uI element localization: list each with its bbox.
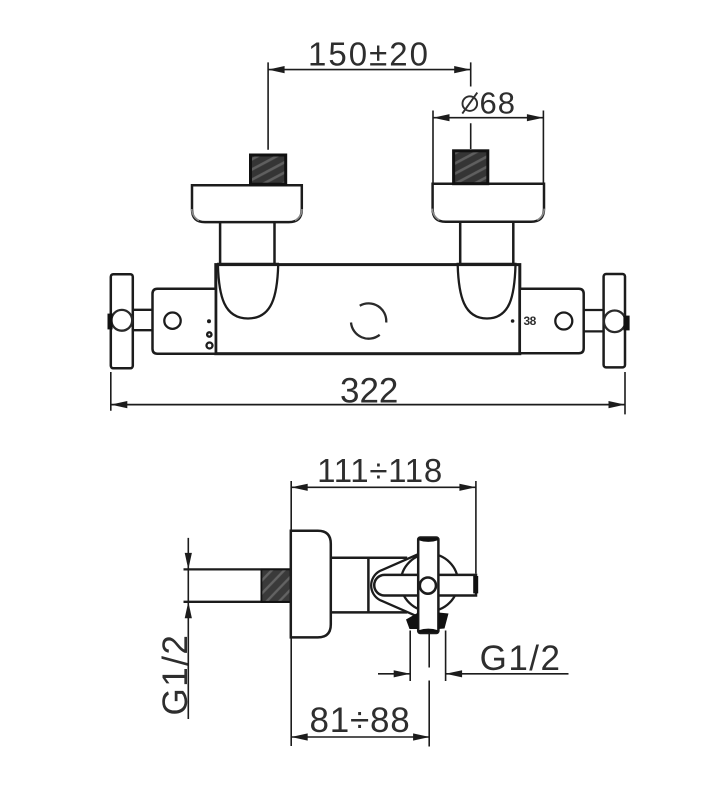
handle horizontal arm <box>374 575 476 596</box>
left cap dot 2 <box>207 332 211 336</box>
left riser pipe <box>220 222 274 264</box>
arrow Ø68 left <box>433 114 450 121</box>
wall plane extension below escutcheon <box>290 638 292 746</box>
central selector circle <box>351 303 386 338</box>
mixer body <box>216 265 520 354</box>
side escutcheon <box>291 531 331 638</box>
arrow 111 left <box>291 484 308 491</box>
svg-text:150±20: 150±20 <box>308 36 430 73</box>
left inlet dome <box>218 265 278 319</box>
right knob arm stub <box>623 316 629 331</box>
left cap circle <box>164 313 180 329</box>
svg-text:322: 322 <box>340 372 398 411</box>
handle vertical arm <box>418 538 438 634</box>
svg-text:G1/2: G1/2 <box>480 639 562 678</box>
right knob hub <box>604 311 626 333</box>
temperature dot <box>511 319 515 323</box>
svg-text:68: 68 <box>480 86 516 121</box>
right wall anchor <box>454 151 488 184</box>
arrow 81 right <box>413 733 430 740</box>
dim 150±20 extension lines <box>268 62 471 149</box>
right cap circle <box>555 313 572 330</box>
left wall anchor <box>251 155 286 184</box>
horizontal arm end cap <box>473 576 478 593</box>
right escutcheon <box>433 184 544 222</box>
dim Ø68 extension lines <box>433 111 543 184</box>
right pipe/body junction <box>457 263 517 266</box>
left pipe/body junction <box>217 263 279 266</box>
left knob arm stub <box>108 314 113 330</box>
dim Ø68 line <box>433 117 543 119</box>
handle skirt circle <box>401 554 458 611</box>
arrow G1/2 up <box>185 602 192 619</box>
pipe hatch block <box>261 569 290 601</box>
arrow outlet left <box>446 670 463 677</box>
arrow 322 right <box>609 401 626 408</box>
arrow G1/2 down <box>185 553 192 570</box>
outlet center line <box>428 634 430 747</box>
right knob connector <box>584 310 604 331</box>
right end cap <box>520 289 584 353</box>
arrow 322 left <box>111 401 128 408</box>
dim 81÷88 line <box>291 736 429 738</box>
left knob connector <box>133 310 153 330</box>
vertical arm top cap <box>419 538 438 542</box>
arrow 150 left <box>268 66 285 73</box>
svg-text:81÷88: 81÷88 <box>309 701 410 740</box>
left escutcheon corner flicks <box>192 209 302 221</box>
right inlet dome <box>458 265 516 319</box>
label Ø68 diameter symbol <box>462 93 477 114</box>
dim 322 line <box>111 404 625 406</box>
arrow 111 right <box>459 484 476 491</box>
right escutcheon corner flicks <box>432 209 544 221</box>
left escutcheon <box>192 185 302 222</box>
skirt black flank left <box>406 613 418 630</box>
arrow outlet right <box>394 670 411 677</box>
wall supply pipe <box>184 569 291 601</box>
left end cap <box>153 289 216 354</box>
dim 111÷118 line <box>291 486 476 488</box>
left knob bar <box>111 274 133 368</box>
arrow 150 right <box>454 66 471 73</box>
left cap dot 3 <box>207 343 213 349</box>
G1/2 right dim line <box>378 673 569 675</box>
vertical arm bottom cap <box>419 629 438 633</box>
body side section <box>331 558 407 613</box>
arrow 81 left <box>291 733 308 740</box>
svg-text:111÷118: 111÷118 <box>317 452 443 489</box>
dim 150±20 line <box>268 69 471 71</box>
right riser pipe <box>460 222 513 264</box>
handle center circle <box>420 578 436 594</box>
svg-text:G1/2: G1/2 <box>156 634 195 716</box>
left knob hub <box>111 310 132 331</box>
dim 111÷118 extension lines <box>291 481 476 574</box>
arrow Ø68 right <box>527 114 544 121</box>
svg-text:38: 38 <box>524 314 537 328</box>
bonnet cone <box>371 554 418 616</box>
dim 322 extension lines <box>111 372 625 414</box>
right knob bar <box>604 274 625 367</box>
G1/2 vertical dim line <box>187 538 189 719</box>
skirt black flank right <box>438 613 448 630</box>
outlet extension lines <box>410 631 445 682</box>
left cap dot 1 <box>207 319 211 323</box>
